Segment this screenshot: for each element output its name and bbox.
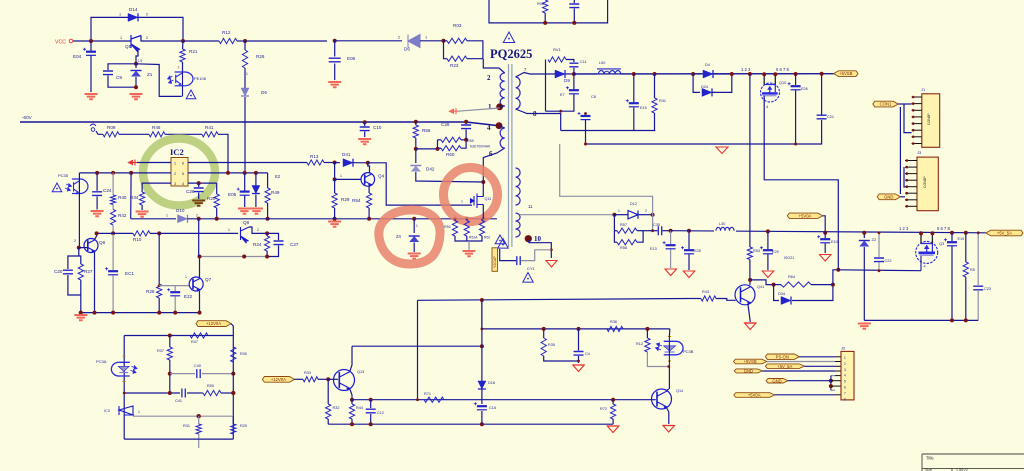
ground return path xyxy=(560,144,653,231)
diode D24 xyxy=(693,74,700,92)
svg-text:E10: E10 xyxy=(831,240,838,244)
svg-text:D14: D14 xyxy=(129,7,138,12)
wire D10 to Q7row xyxy=(198,219,200,257)
svg-text:R42: R42 xyxy=(118,213,127,218)
wire winding11 out xyxy=(520,214,614,216)
resistor R53 xyxy=(747,247,752,260)
transistor Q4 xyxy=(361,173,375,187)
connector J2 xyxy=(841,351,854,400)
warning triangle xyxy=(498,239,508,249)
svg-text:R44: R44 xyxy=(356,406,363,410)
svg-text:EC1: EC1 xyxy=(125,271,134,276)
wire xyxy=(335,40,402,42)
wire bus to IC2 row xyxy=(244,122,246,173)
svg-text:1: 1 xyxy=(618,209,620,213)
svg-text:1: 1 xyxy=(416,224,418,228)
svg-text:R43: R43 xyxy=(702,290,709,294)
node 1.5 xyxy=(134,62,138,66)
zener Z1 xyxy=(135,64,137,68)
svg-text:R64: R64 xyxy=(788,275,795,279)
svg-text:4: 4 xyxy=(924,265,926,269)
rail segment 2 xyxy=(268,218,497,220)
resistor R05 xyxy=(543,0,548,13)
svg-text:C28: C28 xyxy=(441,122,450,127)
wire PC3B top xyxy=(668,329,670,336)
resistor R26 xyxy=(244,41,246,50)
bottom rail mid xyxy=(328,423,613,425)
resistor R30 xyxy=(231,347,236,362)
capacitor E05 xyxy=(244,173,246,191)
R59 R50 pair xyxy=(437,140,439,148)
svg-text:C27: C27 xyxy=(290,242,299,247)
red annotation circle Z4 xyxy=(379,210,440,264)
junction xyxy=(226,171,230,175)
capacitor CY1 xyxy=(521,250,551,261)
wire pin1 xyxy=(799,356,835,358)
junction xyxy=(766,229,770,233)
wire top loop xyxy=(91,17,183,41)
capacitor E04 xyxy=(90,41,92,52)
capacitor E29 xyxy=(767,231,769,249)
port VCC red xyxy=(129,160,138,166)
connector CN2 xyxy=(917,157,938,211)
zener Z5 xyxy=(255,173,257,186)
svg-text:D42: D42 xyxy=(426,167,435,172)
capacitor E19 xyxy=(951,233,953,241)
sense common wire xyxy=(455,236,482,241)
svg-text:2: 2 xyxy=(257,228,259,232)
resistor R54 xyxy=(367,193,372,208)
junction xyxy=(95,171,99,175)
ground xyxy=(858,324,871,329)
junction xyxy=(651,229,654,232)
flag CON1 xyxy=(873,101,898,107)
flag +5V 5A xyxy=(986,230,1023,236)
svg-text:E13: E13 xyxy=(650,247,657,251)
svg-text:2: 2 xyxy=(844,362,846,366)
svg-text:1: 1 xyxy=(119,13,121,17)
resistor R33 xyxy=(295,378,304,380)
junction D4 left xyxy=(691,72,695,76)
junction xyxy=(572,21,576,25)
wire join R03R23 xyxy=(467,41,483,59)
junction xyxy=(266,217,270,221)
IC2 box xyxy=(171,158,188,187)
svg-text:Q13: Q13 xyxy=(357,370,364,374)
resistor R12 xyxy=(183,40,219,42)
svg-text:Q6: Q6 xyxy=(99,240,106,245)
svg-text:C8: C8 xyxy=(591,95,596,99)
svg-text:Q41: Q41 xyxy=(757,285,764,289)
svg-text:C22: C22 xyxy=(885,259,892,263)
resistor R12b xyxy=(646,329,648,338)
capacitor C22 xyxy=(878,233,880,257)
junction xyxy=(687,229,691,233)
resistor R24 xyxy=(266,233,268,236)
resistor R41b xyxy=(654,74,656,98)
junction xyxy=(197,181,201,185)
resistor R10 xyxy=(133,231,150,236)
diode D41 xyxy=(335,162,340,164)
svg-text:CY1: CY1 xyxy=(527,266,536,271)
svg-text:1: 1 xyxy=(488,103,492,111)
junction xyxy=(950,231,954,235)
svg-text:2: 2 xyxy=(146,13,148,17)
svg-text:6: 6 xyxy=(844,386,846,390)
warning triangle xyxy=(495,235,505,244)
resistor R58 xyxy=(614,231,617,243)
ground open xyxy=(762,271,774,278)
capacitor E06 xyxy=(334,41,336,57)
resistor R51B xyxy=(466,219,468,221)
junction xyxy=(243,171,247,175)
svg-text:1: 1 xyxy=(340,174,342,178)
svg-text:R53: R53 xyxy=(753,249,760,253)
capacitor C26 xyxy=(198,183,200,187)
junction xyxy=(412,217,416,221)
junction xyxy=(197,217,201,221)
svg-text:R50: R50 xyxy=(207,384,214,388)
junction xyxy=(254,171,258,175)
svg-text:+5VSB: +5VSB xyxy=(839,71,852,76)
rail left segment xyxy=(131,218,176,220)
svg-text:R21: R21 xyxy=(189,49,198,54)
svg-text:R23: R23 xyxy=(450,63,459,68)
wire xyxy=(188,218,268,220)
svg-text:E19: E19 xyxy=(958,237,965,241)
row y399 xyxy=(352,399,653,401)
inductor L30 xyxy=(714,228,736,235)
junction xyxy=(612,213,616,217)
junction xyxy=(111,171,115,175)
row y346 xyxy=(352,345,482,347)
junction xyxy=(168,372,172,376)
earth ground brown xyxy=(192,201,205,206)
svg-text:Q10: Q10 xyxy=(779,81,786,85)
junction xyxy=(93,311,97,315)
wire x131 down xyxy=(130,173,132,219)
resistor R51A xyxy=(454,219,456,221)
svg-text:R12: R12 xyxy=(222,30,231,35)
red annotation circle Q11 xyxy=(444,168,498,222)
wire gate run xyxy=(368,163,472,205)
svg-text:CON1: CON1 xyxy=(880,102,892,107)
resistor R20 xyxy=(216,183,218,194)
svg-text:L50: L50 xyxy=(599,61,605,65)
winding sec E xyxy=(516,168,521,205)
capacitor C24 xyxy=(96,173,98,191)
flag +12V-2 xyxy=(262,377,294,383)
winding primary A xyxy=(500,73,505,106)
svg-text:1: 1 xyxy=(185,275,187,279)
ground xyxy=(468,241,470,250)
svg-text:E2: E2 xyxy=(275,174,281,179)
wire xyxy=(165,133,202,135)
wire vert flags xyxy=(899,107,901,194)
junction xyxy=(181,39,185,43)
svg-text:R47: R47 xyxy=(191,340,198,344)
svg-text:2: 2 xyxy=(174,172,176,176)
junction xyxy=(480,422,484,426)
svg-text:C23: C23 xyxy=(984,287,991,291)
wire xyxy=(112,205,114,210)
svg-text:2: 2 xyxy=(398,36,400,40)
svg-text:R51: R51 xyxy=(444,225,451,229)
ground xyxy=(85,94,98,99)
capacitor C10 xyxy=(364,122,366,126)
wire Q4 base xyxy=(335,178,362,180)
junction xyxy=(481,217,485,221)
resistor R29b xyxy=(232,416,234,424)
svg-text:+12V0A: +12V0A xyxy=(206,321,221,326)
junction xyxy=(919,231,923,235)
svg-text:10: 10 xyxy=(534,235,542,243)
wire xyxy=(904,104,912,133)
junction xyxy=(831,283,835,287)
ground open xyxy=(716,147,728,154)
junction xyxy=(89,39,93,43)
junction xyxy=(862,231,866,235)
wire Q14 emitter xyxy=(667,408,669,425)
junction xyxy=(442,39,446,43)
svg-text:6: 6 xyxy=(182,162,184,166)
resistor R28 xyxy=(157,284,162,298)
diode D12 xyxy=(628,211,638,219)
svg-text:R05: R05 xyxy=(537,2,544,6)
flag GND a xyxy=(734,369,762,373)
svg-text:E06: E06 xyxy=(347,56,356,61)
resistor R41 xyxy=(202,132,218,137)
junction xyxy=(572,72,576,76)
capacitor C28 xyxy=(465,122,467,124)
wire pin8 xyxy=(775,394,835,396)
svg-text:RV1: RV1 xyxy=(553,47,561,52)
svg-text:C10: C10 xyxy=(373,125,382,130)
wire x482 up xyxy=(481,300,483,329)
diode D10 xyxy=(178,215,188,223)
transistor Q7 xyxy=(189,277,203,291)
wire xyxy=(150,232,159,234)
svg-text:Z1: Z1 xyxy=(147,72,153,77)
svg-text:NJE70004AK: NJE70004AK xyxy=(470,145,491,149)
node VCC wire xyxy=(73,40,131,42)
opto PC35 xyxy=(72,179,88,194)
junction xyxy=(265,231,269,235)
svg-text:7: 7 xyxy=(844,391,846,395)
svg-text:R26: R26 xyxy=(256,54,265,59)
flag GND b xyxy=(766,379,788,384)
junction xyxy=(480,344,484,348)
junction xyxy=(577,360,580,363)
junction xyxy=(369,398,373,402)
junction xyxy=(363,120,367,124)
junction xyxy=(480,298,484,302)
ground xyxy=(136,212,149,217)
wire IC2 pin1 xyxy=(137,162,171,164)
svg-text:R12: R12 xyxy=(636,342,643,346)
svg-text:C35: C35 xyxy=(653,223,660,227)
winding sec F xyxy=(516,213,521,237)
capacitor E28 xyxy=(688,231,690,249)
resistor R46 xyxy=(149,132,165,137)
wire IC2 pin6 xyxy=(188,162,307,164)
junction xyxy=(197,414,201,418)
TL431 IC3 xyxy=(119,406,134,415)
junction xyxy=(326,377,330,381)
svg-text:R30: R30 xyxy=(240,352,247,356)
junction xyxy=(542,327,546,331)
capacitor C27 xyxy=(267,233,278,240)
svg-text:L30: L30 xyxy=(719,222,725,226)
svg-text:R54: R54 xyxy=(352,198,361,203)
svg-text:Y2CAP: Y2CAP xyxy=(493,256,497,268)
warning triangle xyxy=(523,273,533,283)
wire to opto xyxy=(136,64,182,97)
svg-text:PS-ON: PS-ON xyxy=(776,354,789,359)
opto PC3A xyxy=(111,362,129,376)
resistor R32 xyxy=(327,379,329,404)
svg-text:E22: E22 xyxy=(184,294,193,299)
opto PE106 xyxy=(175,72,193,86)
junction xyxy=(481,180,485,184)
svg-text:C26: C26 xyxy=(186,189,195,194)
junction xyxy=(632,72,636,76)
svg-text:C16: C16 xyxy=(489,406,496,410)
resistor R35 xyxy=(543,329,545,338)
pin 4 dot xyxy=(496,122,503,129)
wire xyxy=(420,40,444,42)
capacitor C41 xyxy=(182,389,185,398)
svg-text:R55: R55 xyxy=(422,128,431,133)
svg-text:2: 2 xyxy=(74,239,76,243)
svg-text:Q7: Q7 xyxy=(205,277,212,282)
diode D34 xyxy=(774,285,779,301)
net label vertical 2 xyxy=(491,245,497,247)
junction xyxy=(198,311,202,315)
svg-text:E7: E7 xyxy=(560,93,565,97)
junction xyxy=(977,231,980,234)
diode D4 xyxy=(693,73,701,75)
core lines xyxy=(509,64,512,247)
zener D42 xyxy=(415,149,417,163)
diode D9 xyxy=(555,70,565,78)
junction xyxy=(543,21,547,25)
junction xyxy=(265,255,269,259)
zener Z2 xyxy=(863,233,865,238)
svg-text:E05: E05 xyxy=(228,192,237,197)
junction xyxy=(414,120,418,124)
vertical x482 xyxy=(481,300,483,424)
ground open xyxy=(663,426,675,433)
ground open xyxy=(665,269,677,276)
svg-text:IC3: IC3 xyxy=(104,409,110,413)
ground xyxy=(91,211,104,216)
svg-text:C40: C40 xyxy=(194,364,201,368)
wire Q13 emitter xyxy=(350,390,352,400)
wire pin2 xyxy=(767,361,835,363)
junction xyxy=(930,231,934,235)
net label vertical xyxy=(492,248,498,271)
junction xyxy=(878,269,881,272)
flag +12V0A xyxy=(196,321,231,327)
ground open xyxy=(820,255,832,262)
junction xyxy=(436,147,440,151)
svg-text:5: 5 xyxy=(844,380,846,384)
svg-text:R28: R28 xyxy=(146,289,155,294)
svg-text:4: 4 xyxy=(844,374,846,378)
junction xyxy=(333,39,337,43)
svg-text:D41: D41 xyxy=(342,152,351,157)
svg-text:4: 4 xyxy=(766,105,768,109)
svg-text:C4: C4 xyxy=(585,352,590,356)
svg-text:R13: R13 xyxy=(310,154,319,159)
junction xyxy=(369,422,373,426)
svg-text:R31: R31 xyxy=(183,424,190,428)
ground open xyxy=(573,365,585,372)
junction xyxy=(964,318,968,322)
svg-text:R09: R09 xyxy=(107,125,116,130)
capacitor E10 xyxy=(824,233,826,238)
Q41 base run xyxy=(418,299,689,301)
junction xyxy=(550,248,553,251)
opto PC3B xyxy=(664,341,683,355)
capacitor C9 xyxy=(108,64,136,70)
junction xyxy=(129,171,133,175)
wire link xyxy=(830,376,832,391)
flag +5V 5A b xyxy=(765,364,804,369)
resistor R13 xyxy=(307,160,324,165)
capacitor C05 xyxy=(573,0,575,3)
right vertical xyxy=(232,336,234,440)
wire xyxy=(621,73,834,75)
junction xyxy=(820,72,824,76)
svg-text:R41: R41 xyxy=(205,125,214,130)
wire pin8 hook xyxy=(831,389,835,391)
capacitor C12 xyxy=(370,400,372,408)
svg-text:D10: D10 xyxy=(176,208,185,213)
junction xyxy=(79,311,83,315)
junction xyxy=(772,283,776,287)
wire PC35 vertical xyxy=(78,173,80,248)
junction xyxy=(231,391,235,395)
ground xyxy=(74,315,87,320)
junction xyxy=(950,318,954,322)
diode D16 xyxy=(478,381,486,389)
wire Q41 emitter xyxy=(748,305,750,323)
junction xyxy=(134,85,138,89)
resistor R09 xyxy=(103,132,119,137)
svg-text:5 6 7 8: 5 6 7 8 xyxy=(937,226,950,231)
svg-text:Z4: Z4 xyxy=(396,234,402,239)
junction xyxy=(878,231,881,234)
svg-text:C41: C41 xyxy=(175,399,182,403)
wire Q7 emitter xyxy=(199,291,201,313)
svg-text:R35: R35 xyxy=(548,343,555,347)
C20 R27 pair xyxy=(68,248,79,269)
block bottom rail xyxy=(124,438,233,440)
svg-text:C21: C21 xyxy=(827,115,834,119)
junction xyxy=(823,231,827,235)
svg-text:D34: D34 xyxy=(778,292,785,296)
svg-text:-60V: -60V xyxy=(22,115,33,120)
svg-text:1: 1 xyxy=(844,356,846,360)
svg-text:Q11: Q11 xyxy=(485,197,492,201)
svg-text:R50: R50 xyxy=(446,152,455,157)
ground open xyxy=(607,426,619,433)
junction xyxy=(333,217,337,221)
vertical x417 xyxy=(417,300,419,399)
svg-text:R03: R03 xyxy=(453,23,462,28)
